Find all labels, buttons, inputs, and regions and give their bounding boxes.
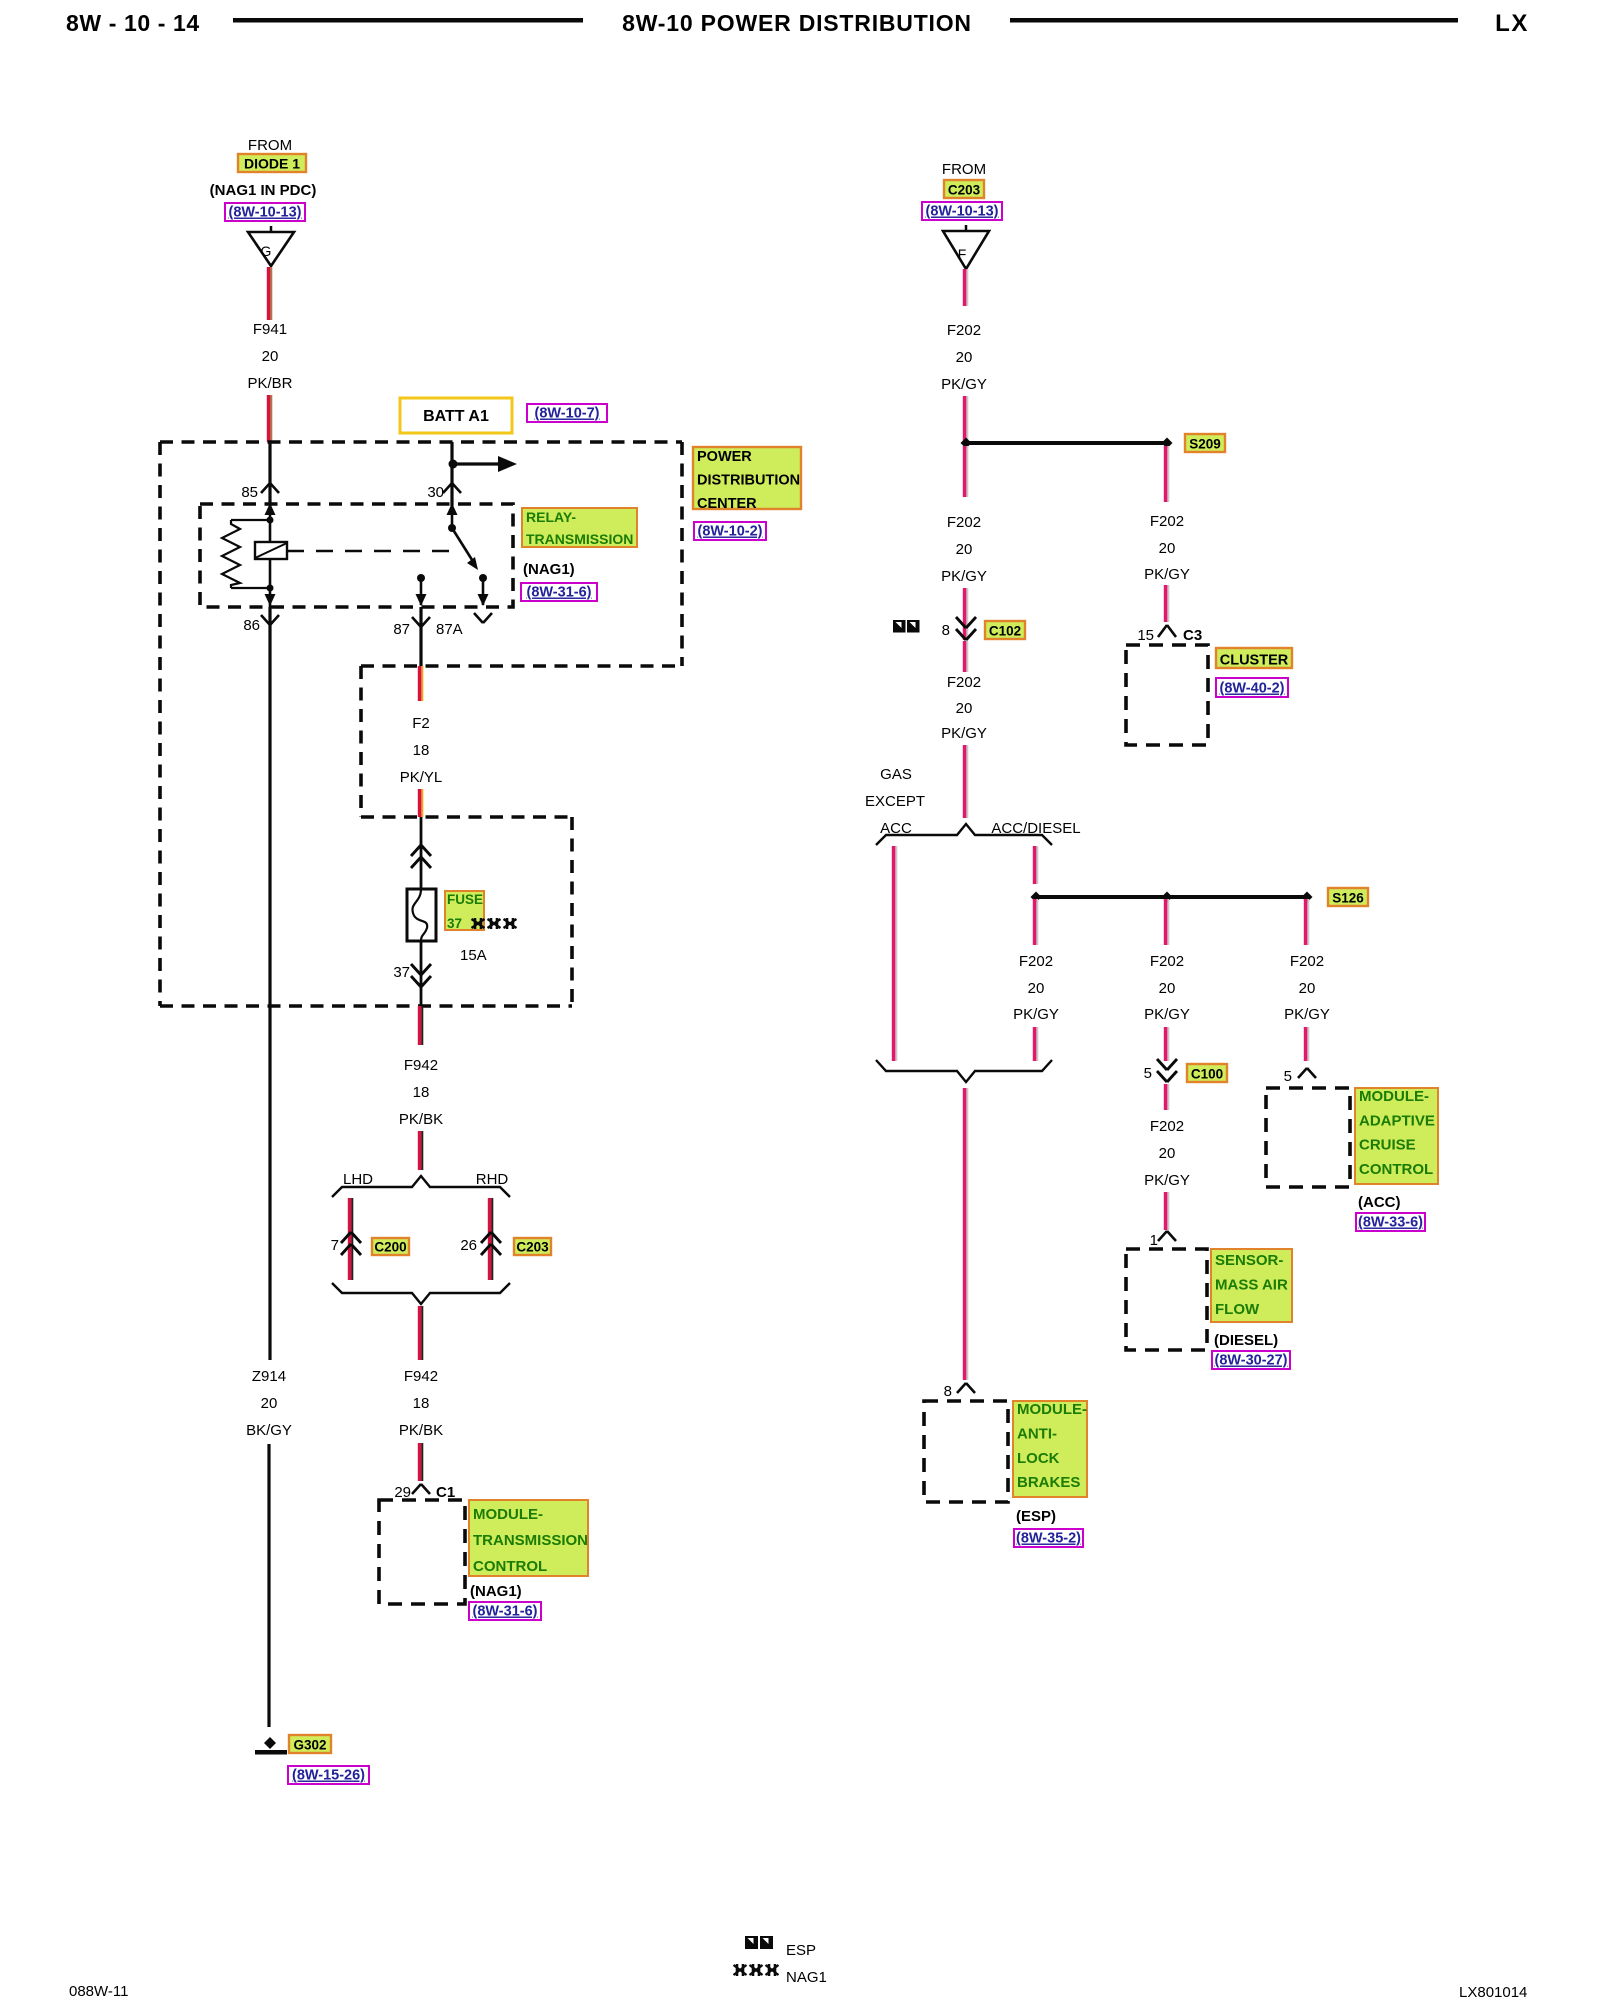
svg-text:GAS: GAS bbox=[880, 766, 912, 783]
svg-text:18: 18 bbox=[413, 1395, 430, 1412]
svg-text:20: 20 bbox=[1028, 980, 1045, 997]
svg-text:(ESP): (ESP) bbox=[1016, 1508, 1056, 1525]
svg-text:C203: C203 bbox=[516, 1240, 549, 1255]
svg-text:5: 5 bbox=[1144, 1065, 1152, 1082]
svg-text:37: 37 bbox=[393, 964, 410, 981]
svg-text:(NAG1): (NAG1) bbox=[523, 561, 575, 578]
svg-text:MODULE-: MODULE- bbox=[1359, 1088, 1429, 1105]
svg-text:(8W-10-7): (8W-10-7) bbox=[535, 406, 600, 422]
svg-text:F202: F202 bbox=[947, 322, 981, 339]
svg-text:(8W-35-2): (8W-35-2) bbox=[1016, 1531, 1081, 1547]
svg-text:CONTROL: CONTROL bbox=[473, 1558, 547, 1575]
svg-text:PK/GY: PK/GY bbox=[1284, 1006, 1330, 1023]
svg-text:PK/GY: PK/GY bbox=[1144, 1006, 1190, 1023]
svg-text:PK/GY: PK/GY bbox=[1144, 566, 1190, 583]
svg-text:(8W-10-13): (8W-10-13) bbox=[228, 205, 301, 221]
svg-text:G302: G302 bbox=[293, 1738, 326, 1753]
svg-text:CONTROL: CONTROL bbox=[1359, 1161, 1433, 1178]
svg-text:PK/BK: PK/BK bbox=[399, 1111, 443, 1128]
svg-text:37: 37 bbox=[447, 916, 462, 931]
svg-text:BATT A1: BATT A1 bbox=[423, 408, 489, 425]
svg-text:FROM: FROM bbox=[248, 137, 292, 154]
svg-text:(8W-31-6): (8W-31-6) bbox=[527, 585, 592, 601]
svg-text:C3: C3 bbox=[1183, 627, 1202, 644]
svg-text:FLOW: FLOW bbox=[1215, 1301, 1260, 1318]
svg-text:(8W-40-2): (8W-40-2) bbox=[1220, 681, 1285, 697]
svg-text:F2: F2 bbox=[412, 715, 430, 732]
svg-text:(8W-31-6): (8W-31-6) bbox=[473, 1604, 538, 1620]
svg-text:PK/GY: PK/GY bbox=[1013, 1006, 1059, 1023]
svg-text:87A: 87A bbox=[436, 621, 463, 638]
svg-text:CLUSTER: CLUSTER bbox=[1220, 653, 1289, 669]
svg-text:30: 30 bbox=[427, 484, 444, 501]
svg-text:F202: F202 bbox=[947, 514, 981, 531]
svg-text:C203: C203 bbox=[948, 183, 981, 198]
svg-text:LX801014: LX801014 bbox=[1459, 1984, 1527, 2000]
svg-text:ANTI-: ANTI- bbox=[1017, 1425, 1057, 1442]
svg-text:ADAPTIVE: ADAPTIVE bbox=[1359, 1112, 1435, 1129]
svg-text:85: 85 bbox=[241, 484, 258, 501]
svg-text:PK/GY: PK/GY bbox=[941, 725, 987, 742]
svg-text:CENTER: CENTER bbox=[697, 496, 757, 512]
svg-text:BK/GY: BK/GY bbox=[246, 1422, 292, 1439]
svg-text:PK/GY: PK/GY bbox=[1144, 1172, 1190, 1189]
svg-text:87: 87 bbox=[393, 621, 410, 638]
svg-text:MODULE-: MODULE- bbox=[1017, 1401, 1087, 1418]
svg-text:TRANSMISSION: TRANSMISSION bbox=[526, 531, 633, 547]
svg-text:PK/GY: PK/GY bbox=[941, 376, 987, 393]
svg-text:18: 18 bbox=[413, 742, 430, 759]
svg-text:LHD: LHD bbox=[343, 1171, 373, 1188]
svg-text:15: 15 bbox=[1137, 627, 1154, 644]
svg-text:(8W-33-6): (8W-33-6) bbox=[1358, 1215, 1423, 1231]
svg-text:F202: F202 bbox=[947, 674, 981, 691]
svg-text:FROM: FROM bbox=[942, 161, 986, 178]
svg-text:LX: LX bbox=[1495, 10, 1529, 37]
svg-text:(ACC): (ACC) bbox=[1358, 1194, 1401, 1211]
svg-text:26: 26 bbox=[460, 1237, 477, 1254]
svg-text:C200: C200 bbox=[374, 1240, 406, 1255]
svg-text:F942: F942 bbox=[404, 1368, 438, 1385]
svg-text:POWER: POWER bbox=[697, 449, 752, 465]
svg-text:18: 18 bbox=[413, 1084, 430, 1101]
svg-text:S209: S209 bbox=[1189, 437, 1221, 452]
svg-text:(8W-30-27): (8W-30-27) bbox=[1214, 1353, 1287, 1369]
svg-text:C102: C102 bbox=[989, 624, 1021, 639]
svg-text:F: F bbox=[958, 246, 967, 262]
svg-text:MASS AIR: MASS AIR bbox=[1215, 1277, 1288, 1294]
svg-text:F202: F202 bbox=[1150, 513, 1184, 530]
svg-text:RHD: RHD bbox=[476, 1171, 509, 1188]
svg-text:F202: F202 bbox=[1150, 1118, 1184, 1135]
svg-text:20: 20 bbox=[1159, 540, 1176, 557]
svg-text:088W-11: 088W-11 bbox=[69, 1983, 128, 2000]
svg-text:RELAY-: RELAY- bbox=[526, 509, 576, 525]
svg-text:FUSE: FUSE bbox=[447, 892, 483, 907]
svg-text:20: 20 bbox=[1159, 1145, 1176, 1162]
svg-text:20: 20 bbox=[261, 1395, 278, 1412]
svg-text:(8W-10-2): (8W-10-2) bbox=[698, 524, 763, 540]
svg-text:(NAG1 IN PDC): (NAG1 IN PDC) bbox=[210, 182, 317, 199]
svg-text:PK/GY: PK/GY bbox=[941, 568, 987, 585]
svg-text:20: 20 bbox=[262, 348, 279, 365]
svg-text:S126: S126 bbox=[1332, 891, 1364, 906]
svg-text:8: 8 bbox=[942, 622, 950, 639]
svg-text:DISTRIBUTION: DISTRIBUTION bbox=[697, 473, 800, 489]
svg-text:ESP: ESP bbox=[786, 1942, 816, 1959]
svg-text:1: 1 bbox=[1150, 1232, 1158, 1249]
svg-text:7: 7 bbox=[331, 1237, 339, 1254]
svg-text:F941: F941 bbox=[253, 321, 287, 338]
svg-text:20: 20 bbox=[1159, 980, 1176, 997]
svg-text:(8W-10-13): (8W-10-13) bbox=[925, 204, 998, 220]
svg-text:TRANSMISSION: TRANSMISSION bbox=[473, 1532, 588, 1549]
svg-text:F942: F942 bbox=[404, 1057, 438, 1074]
svg-text:PK/YL: PK/YL bbox=[400, 769, 443, 786]
svg-text:MODULE-: MODULE- bbox=[473, 1506, 543, 1523]
svg-text:Z914: Z914 bbox=[252, 1368, 286, 1385]
svg-text:(NAG1): (NAG1) bbox=[470, 1583, 522, 1600]
svg-text:5: 5 bbox=[1284, 1068, 1292, 1085]
svg-text:LOCK: LOCK bbox=[1017, 1450, 1060, 1467]
svg-text:8W-10 POWER DISTRIBUTION: 8W-10 POWER DISTRIBUTION bbox=[622, 10, 972, 36]
svg-text:C100: C100 bbox=[1191, 1067, 1223, 1082]
svg-text:F202: F202 bbox=[1019, 953, 1053, 970]
svg-text:F202: F202 bbox=[1150, 953, 1184, 970]
svg-text:NAG1: NAG1 bbox=[786, 1969, 827, 1986]
svg-text:EXCEPT: EXCEPT bbox=[865, 793, 925, 810]
svg-text:G: G bbox=[261, 243, 272, 259]
svg-text:20: 20 bbox=[1299, 980, 1316, 997]
svg-text:DIODE 1: DIODE 1 bbox=[244, 156, 300, 172]
svg-text:PK/BR: PK/BR bbox=[247, 375, 292, 392]
svg-text:8: 8 bbox=[944, 1383, 952, 1400]
svg-text:SENSOR-: SENSOR- bbox=[1215, 1252, 1283, 1269]
svg-text:F202: F202 bbox=[1290, 953, 1324, 970]
svg-text:CRUISE: CRUISE bbox=[1359, 1137, 1416, 1154]
svg-text:15A: 15A bbox=[460, 947, 487, 964]
svg-text:86: 86 bbox=[243, 617, 260, 634]
svg-text:20: 20 bbox=[956, 541, 973, 558]
svg-text:(8W-15-26): (8W-15-26) bbox=[292, 1768, 365, 1784]
svg-text:(DIESEL): (DIESEL) bbox=[1214, 1332, 1278, 1349]
svg-text:8W - 10 - 14: 8W - 10 - 14 bbox=[66, 10, 200, 36]
svg-text:PK/BK: PK/BK bbox=[399, 1422, 443, 1439]
svg-text:20: 20 bbox=[956, 700, 973, 717]
svg-text:BRAKES: BRAKES bbox=[1017, 1474, 1080, 1491]
svg-text:20: 20 bbox=[956, 349, 973, 366]
